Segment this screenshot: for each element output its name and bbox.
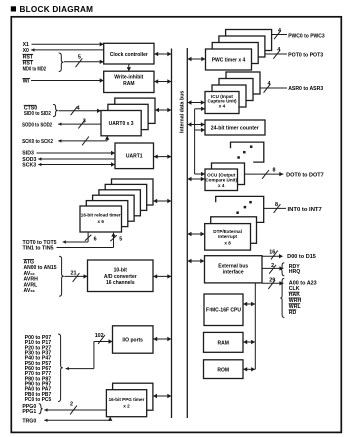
svg-text:UART0 x 3: UART0 x 3 — [109, 121, 134, 127]
svg-text:29: 29 — [269, 278, 275, 284]
svg-text:24-bit timer counter: 24-bit timer counter — [211, 126, 259, 132]
svg-text:UART1: UART1 — [126, 154, 143, 160]
svg-text:HRQ: HRQ — [289, 269, 301, 275]
svg-text:10-bit: 10-bit — [114, 268, 128, 274]
svg-text:16 channels: 16 channels — [106, 280, 135, 286]
svg-text:x 4: x 4 — [218, 183, 225, 188]
svg-text:interface: interface — [223, 270, 244, 276]
svg-text:SCK0 to SCK2: SCK0 to SCK2 — [22, 139, 53, 145]
svg-text:RAM: RAM — [123, 81, 134, 87]
svg-text:4: 4 — [278, 28, 281, 34]
svg-text:RAM: RAM — [218, 341, 229, 347]
svg-text:X0: X0 — [23, 48, 29, 54]
svg-text:4: 4 — [277, 47, 280, 53]
svg-text:16-bit PPG timer: 16-bit PPG timer — [109, 397, 145, 402]
svg-text:RD: RD — [289, 310, 297, 316]
svg-text:ROM: ROM — [217, 367, 229, 373]
svg-text:Compare Unit): Compare Unit) — [205, 177, 237, 182]
svg-text:ASR0 to ASR3: ASR0 to ASR3 — [288, 86, 323, 92]
svg-text:16: 16 — [269, 249, 275, 255]
svg-text:CLK: CLK — [289, 286, 300, 292]
svg-text:A/D converter: A/D converter — [104, 274, 137, 280]
svg-text:5: 5 — [119, 236, 122, 242]
svg-text:4: 4 — [268, 81, 271, 87]
svg-text:Clock controller: Clock controller — [110, 52, 148, 58]
svg-text:DOT0 to DOT7: DOT0 to DOT7 — [286, 172, 324, 178]
svg-text:I/O ports: I/O ports — [122, 338, 143, 344]
svg-text:Write-inhibit: Write-inhibit — [114, 75, 143, 81]
svg-text:16-bit reload timer: 16-bit reload timer — [81, 213, 121, 218]
svg-text:SID3: SID3 — [22, 151, 34, 157]
svg-text:RST: RST — [23, 54, 34, 60]
svg-text:102: 102 — [95, 333, 104, 339]
svg-text:PWC timer x 4: PWC timer x 4 — [212, 58, 246, 64]
svg-text:PWC0 to PWC3: PWC0 to PWC3 — [288, 33, 325, 39]
svg-text:Interrupt: Interrupt — [218, 234, 237, 239]
svg-text:TRG0: TRG0 — [22, 418, 36, 424]
svg-text:RST: RST — [23, 61, 34, 67]
svg-text:x 8: x 8 — [224, 241, 231, 246]
svg-text:x 4: x 4 — [219, 103, 226, 108]
svg-text:SCK3: SCK3 — [22, 163, 36, 169]
svg-text:5: 5 — [78, 54, 81, 60]
svg-text:SID0 to SID2: SID0 to SID2 — [24, 111, 51, 117]
svg-text:x 6: x 6 — [98, 219, 105, 224]
svg-text:2: 2 — [70, 401, 73, 407]
svg-text:SOD0 to SOD2: SOD0 to SOD2 — [22, 122, 52, 128]
svg-text:TIN1 to TIN5: TIN1 to TIN5 — [23, 246, 54, 252]
svg-text:WRL: WRL — [289, 304, 302, 310]
svg-text:8: 8 — [273, 168, 276, 174]
svg-text:4: 4 — [77, 105, 80, 111]
svg-text:POT0 to POT3: POT0 to POT3 — [288, 52, 323, 58]
svg-text:21: 21 — [71, 271, 77, 277]
svg-text:MD0 to MD2: MD0 to MD2 — [23, 67, 47, 73]
svg-text:PC0 to PC5: PC0 to PC5 — [25, 397, 52, 403]
svg-text:PPG1: PPG1 — [22, 409, 36, 415]
svg-text:F2MC-16F CPU: F2MC-16F CPU — [206, 307, 241, 313]
svg-text:Internal data bus: Internal data bus — [179, 91, 185, 133]
svg-text:8: 8 — [275, 202, 278, 208]
svg-text:External bus: External bus — [218, 263, 248, 269]
svg-text:6: 6 — [94, 237, 97, 243]
svg-text:BLOCK DIAGRAM: BLOCK DIAGRAM — [20, 5, 94, 14]
svg-text:INT0 to INT7: INT0 to INT7 — [288, 207, 322, 213]
svg-text:x 2: x 2 — [123, 404, 130, 409]
svg-text:AVss: AVss — [24, 288, 36, 294]
svg-text:3: 3 — [83, 119, 86, 125]
svg-text:WI: WI — [23, 79, 30, 85]
svg-text:D00 to D15: D00 to D15 — [287, 254, 316, 260]
svg-text:2: 2 — [271, 263, 274, 269]
